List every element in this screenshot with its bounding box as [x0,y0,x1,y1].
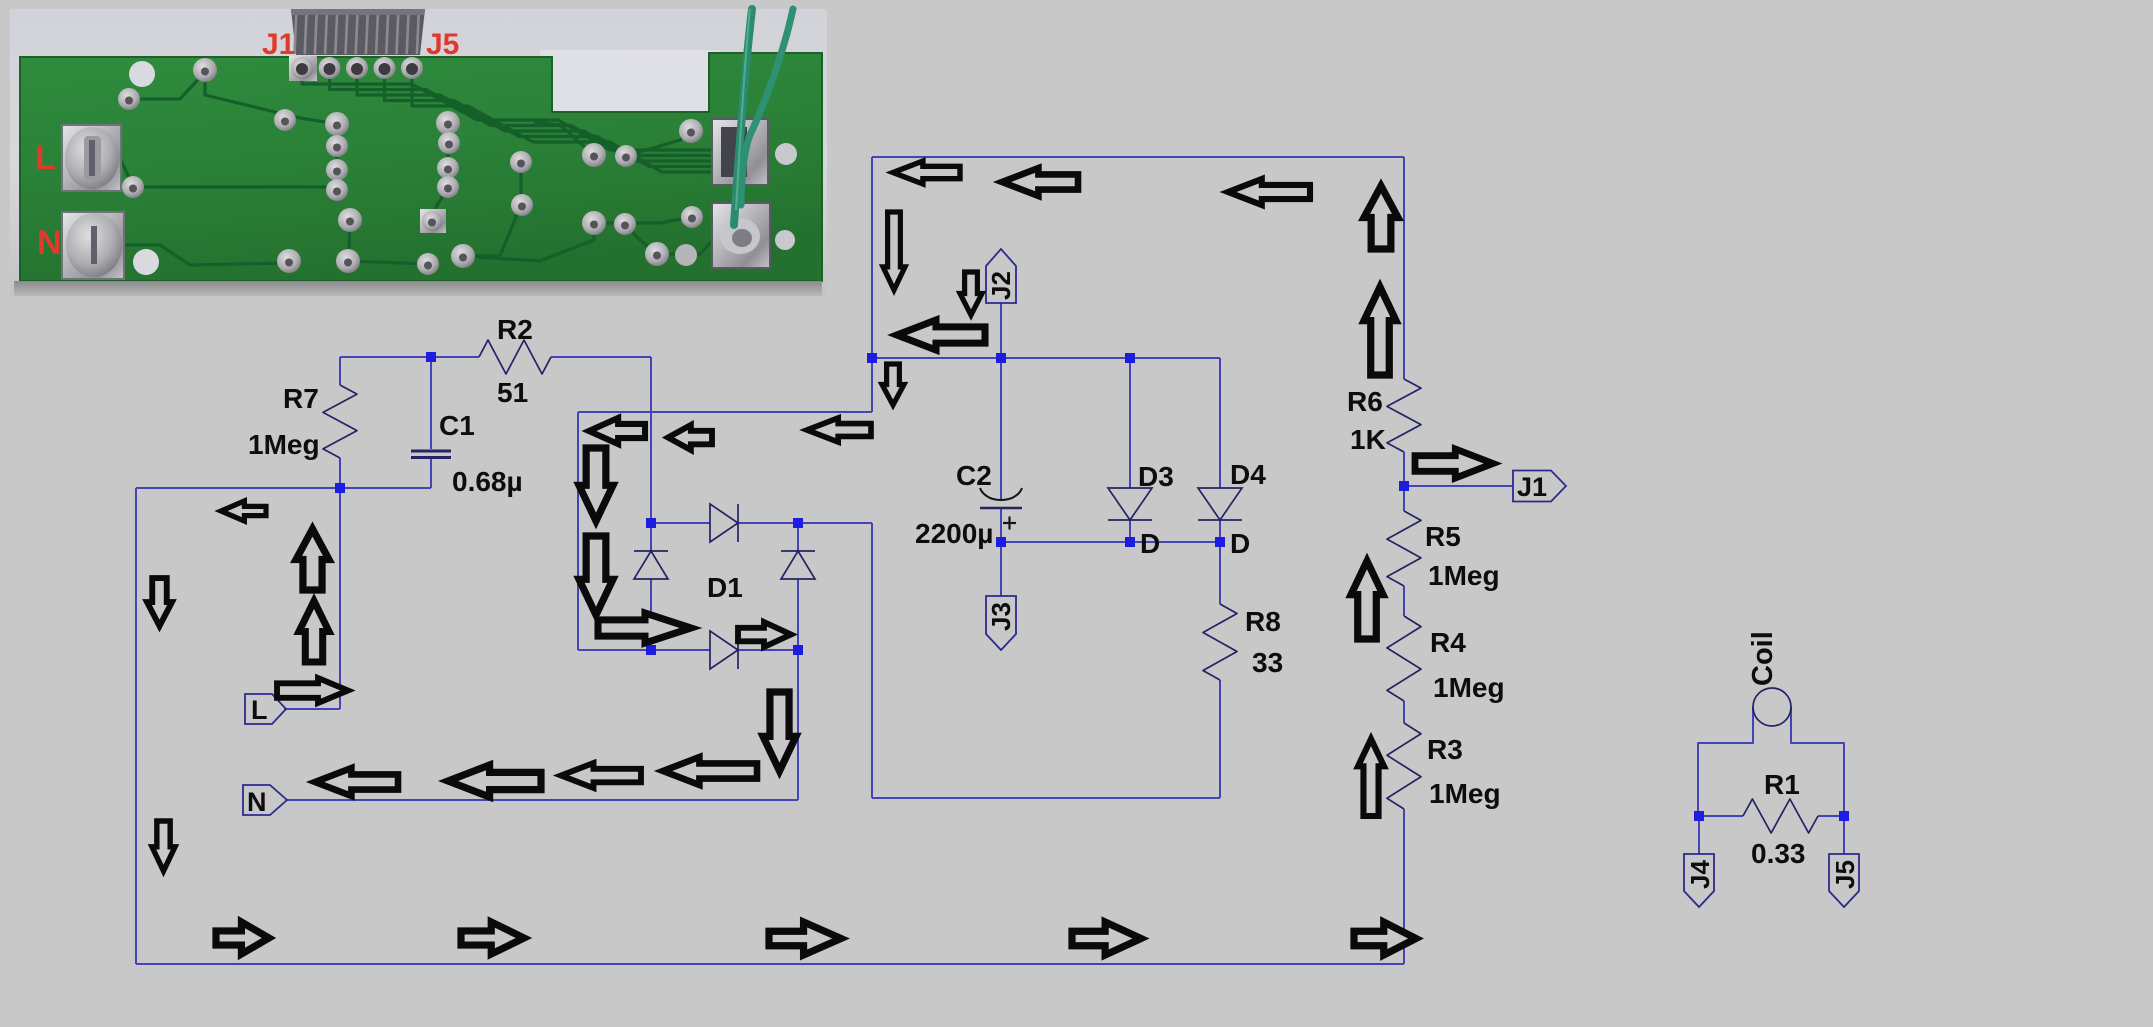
ribbon cable [291,9,425,55]
wire bridge bottom left [651,649,710,651]
current flow arrow [579,536,613,615]
current flow arrow [1358,739,1384,816]
diode D1 left [634,551,668,579]
wire R4-R3 [1403,701,1405,723]
svg-text:D3: D3 [1138,461,1174,492]
current flow arrow [1415,449,1493,478]
port J5 [1829,854,1859,907]
svg-text:J2: J2 [986,271,1016,300]
PCB traces [93,72,770,265]
wire to R8 [872,797,1220,799]
svg-text:J1: J1 [1517,472,1547,502]
wire R7 top lead [339,357,341,385]
node bridge BL [646,645,656,655]
node J2 [996,353,1006,363]
resistor R4 [1387,616,1421,701]
svg-text:0.68µ: 0.68µ [452,466,523,497]
wire R8 bottom lead [1219,680,1221,798]
current flow arrow [1072,922,1141,955]
current flow arrow [897,320,985,350]
wire bridge right lower [797,579,799,650]
wire jog to bridge [578,411,872,413]
diode D1 right [781,551,815,579]
svg-text:N: N [247,787,267,817]
wire bridge top right [738,522,798,524]
svg-text:0.33: 0.33 [1751,838,1806,869]
port J3 [986,596,1016,650]
current flow arrow [147,578,172,626]
resistor R3 [1387,723,1421,809]
node J5 [1839,811,1849,821]
coil [1753,688,1791,726]
current flow arrow [461,922,524,954]
diode D4 [1198,488,1242,520]
wire bridge left upper [650,523,652,551]
node D3 top [1125,353,1135,363]
wire R8 top lead [1219,542,1221,604]
screw terminal N [62,212,124,279]
wire bottom right vertical [1403,809,1405,964]
svg-text:D: D [1140,528,1160,559]
current flow arrow [1002,168,1078,196]
svg-text:L: L [35,139,56,177]
svg-text:J5: J5 [1830,860,1860,889]
node R2/R7/C1 [426,352,436,362]
current flow arrow [561,763,641,788]
current flow arrow [807,418,871,442]
current flow arrow [579,448,613,521]
port N [243,785,287,815]
wire to J1 [1404,485,1513,487]
current flow arrow [1364,186,1398,249]
wire node row [1001,541,1220,543]
wire R7 bottom lead [339,458,341,488]
wire loop left vertical [871,157,873,412]
node D4 out [1215,537,1225,547]
current flow arrow [1364,287,1396,375]
wire N to bridge [797,650,799,800]
diode D1 bottom [710,631,738,669]
svg-text:J4: J4 [1685,860,1715,889]
wire C2 bottom lead [1000,508,1002,542]
svg-text:51: 51 [497,377,528,408]
svg-text:N: N [37,224,62,262]
screw terminal L [62,125,121,191]
wire loop right vertical [1403,157,1405,379]
PCB photo [10,9,827,296]
wire L to node [339,488,341,709]
node J4 [1694,811,1704,821]
resistor R7 [323,385,357,458]
wire to J3 [1000,542,1002,596]
wire D3 to node [1129,520,1131,542]
current flow arrow [960,272,982,315]
wire bridge right upper [797,523,799,551]
svg-text:1Meg: 1Meg [1429,778,1501,809]
wire coil left lead [1698,707,1753,816]
wire bridge feed left [577,412,579,650]
wire top loop [872,156,1404,158]
svg-text:Coil: Coil [1747,631,1779,686]
wire left loop vertical [135,488,137,964]
node bridge BR [793,645,803,655]
current flow arrow [589,418,645,444]
current flow arrow [315,768,398,796]
current flow arrow [1351,561,1383,639]
current flow arrow [221,501,266,521]
current flow arrow [152,821,175,871]
svg-text:2200µ: 2200µ [915,518,993,549]
current flow arrow [668,425,712,450]
svg-text:L: L [251,695,268,725]
wire R6 to node [1403,452,1405,511]
wire J5 lead [1843,816,1845,854]
wire from N port [287,799,798,801]
wire bottom loop [136,963,1404,965]
svg-text:R6: R6 [1347,386,1383,417]
svg-text:R5: R5 [1425,521,1461,552]
current flow arrow [893,161,960,184]
port J1 [1513,471,1566,502]
PCB board [20,53,822,281]
current flow arrow [882,364,904,405]
svg-text:R8: R8 [1245,606,1281,637]
wire to bridge bottom-left [578,649,651,651]
output terminal blocks [712,119,768,185]
svg-text:J5: J5 [426,28,459,61]
current flow arrow [663,757,757,785]
wire D3 lead [1129,358,1131,488]
current flow arrow [1228,179,1310,205]
current flow arrow [883,212,905,290]
wire from L port [284,708,340,710]
wire R5-R4 [1403,586,1405,616]
current flow arrow [296,529,329,590]
resistor R2 [479,340,551,374]
wire bridge left lower [650,579,652,650]
svg-text:C1: C1 [439,410,475,441]
current flow arrow [216,922,269,954]
wire bridge bottom right [738,649,798,651]
current flow arrow [769,922,841,955]
wire R7 top [340,356,431,358]
svg-text:D4: D4 [1230,459,1266,490]
current flow arrow [299,601,329,662]
board holes [129,61,155,87]
svg-text:R7: R7 [283,383,319,414]
diode D1 top [710,504,738,542]
port J4 [1684,854,1714,907]
resistor R6 [1387,379,1421,452]
wire J4 lead [1698,816,1700,854]
svg-text:C2: C2 [956,460,992,491]
svg-text:R4: R4 [1430,627,1466,658]
svg-text:1Meg: 1Meg [1428,560,1500,591]
svg-text:J1: J1 [262,28,295,61]
wire C1 bottom lead [430,458,432,488]
PCB solder pads [420,209,446,233]
current flow arrow [738,622,791,647]
wire bridge out down [871,523,873,798]
node C2 out [996,537,1006,547]
node D3 out [1125,537,1135,547]
node R7 bottom [335,483,345,493]
svg-text:33: 33 [1252,647,1283,678]
current flow arrow [448,765,541,797]
wire R2 to bridge [551,356,651,358]
node bridge TL [646,518,656,528]
green hookup wires [734,9,752,225]
wire bridge out [798,522,872,524]
resistor R8 [1203,604,1237,680]
svg-text:D: D [1230,528,1250,559]
svg-text:R2: R2 [497,314,533,345]
svg-text:R3: R3 [1427,734,1463,765]
wire from J2 [1000,303,1002,358]
current flow arrow [277,678,348,703]
wire D4 lead [1219,358,1221,488]
wire D4 to node [1219,520,1221,542]
wire coil right lead [1791,707,1844,816]
resistor R1 [1743,799,1818,833]
current flow arrow [763,692,796,771]
port L [245,694,286,724]
wire C1 top lead [430,357,432,449]
diode D3 [1108,488,1152,520]
capacitor C1 [411,450,451,453]
svg-text:1K: 1K [1350,424,1386,455]
connector pads J1-J5 [289,56,317,81]
capacitor C2 [980,488,1022,500]
wire R1 left [1698,815,1743,817]
node J1 [1399,481,1409,491]
node bus left [867,353,877,363]
wire node to R2 [431,356,479,358]
svg-text:J3: J3 [986,602,1016,631]
current flow arrow [598,613,691,643]
port J2 [986,249,1016,303]
svg-text:R1: R1 [1764,769,1800,800]
svg-text:D1: D1 [707,572,743,603]
wire down to bridge top-left [650,357,652,523]
current flow arrow [1354,922,1416,955]
wire mid horizontal [136,487,431,489]
wire C2 top lead [1000,358,1002,500]
svg-text:1Meg: 1Meg [1433,672,1505,703]
wire bridge top left [651,522,710,524]
svg-text:1Meg: 1Meg [248,429,320,460]
node bridge TR [793,518,803,528]
resistor R5 [1387,511,1421,586]
wire bus [872,357,1220,359]
wire R1 right [1818,815,1844,817]
